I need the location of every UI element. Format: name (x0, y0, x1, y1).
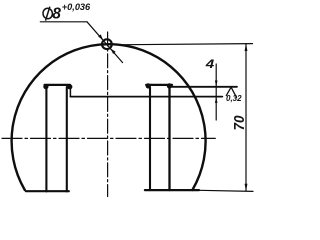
svg-text:4: 4 (205, 57, 215, 71)
vertical centerline (107, 32, 109, 197)
bottom line left (26, 190, 69, 192)
top face line A (171, 86, 237, 88)
svg-text:70: 70 (231, 115, 248, 131)
4-dim vertical line (215, 64, 217, 120)
roughness caret mark (226, 87, 236, 97)
70-dim top arrow (245, 44, 248, 51)
70-dim bottom arrow (245, 184, 248, 191)
right slot left wall (149, 87, 151, 190)
70-dim top extension line (113, 44, 253, 45)
svg-text:0,32: 0,32 (226, 94, 242, 103)
hole dim arrow upper-left (98, 34, 103, 39)
left slot left wall (45, 87, 47, 191)
left slot cap (45, 84, 70, 86)
sphere outline arc (12, 44, 206, 190)
horizontal centerline (2, 137, 215, 139)
hole circle (102, 39, 112, 49)
leader underline (40, 21, 87, 23)
right slot cap bead right (167, 83, 172, 88)
left slot right wall (66, 87, 68, 191)
dia symbol of hole label (42, 7, 53, 21)
svg-text:+0,036: +0,036 (62, 2, 91, 12)
right slot right wall (168, 87, 170, 190)
left slot cap bead left (43, 84, 48, 89)
right slot cap (146, 84, 172, 86)
flange line B (70, 96, 222, 98)
70-dim vertical line (245, 44, 247, 191)
left slot cap bead right (67, 84, 72, 89)
4-dim upper arrow (215, 81, 218, 87)
bead drop to flange line (69, 89, 71, 97)
hole dim leader diagonal (87, 22, 123, 63)
4-dim lower arrow (215, 97, 218, 103)
hole dim arrow lower-right (111, 49, 116, 54)
70-dim bottom extension line (199, 190, 253, 191)
svg-text:8: 8 (52, 6, 61, 23)
bottom line right (145, 189, 199, 191)
right slot cap bead left (146, 83, 151, 88)
